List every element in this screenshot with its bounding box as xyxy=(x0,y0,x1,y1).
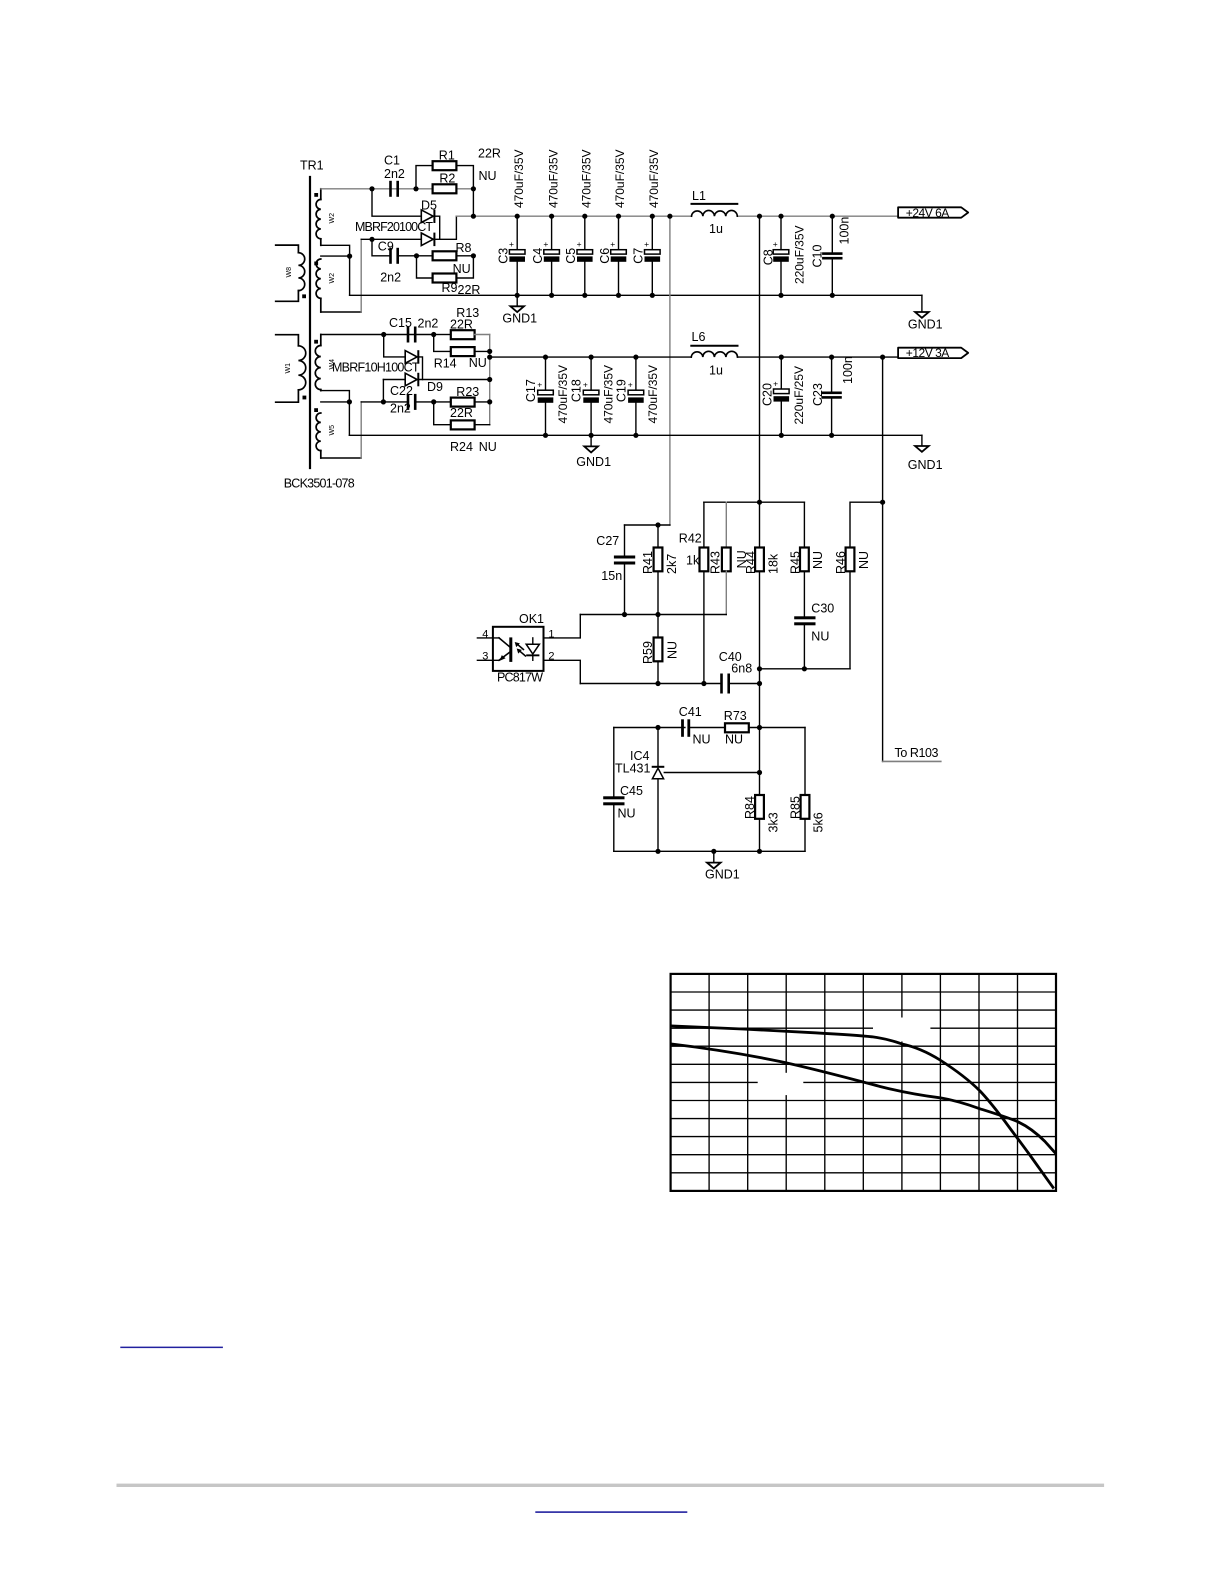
svg-text:NU: NU xyxy=(725,733,743,747)
node R14 right junction xyxy=(487,349,492,354)
wire TL431 bottom rail y851.3 xyxy=(614,850,805,852)
OK1 pin 4 wire xyxy=(477,637,499,639)
svg-text:470uF/35V: 470uF/35V xyxy=(646,365,660,424)
link underline bottom-center xyxy=(535,1511,687,1513)
capacitor C7 xyxy=(644,214,660,298)
capacitor C45 xyxy=(603,796,624,851)
link underline top-left xyxy=(120,1347,223,1349)
wire W2 bottom to center tap xyxy=(321,245,350,256)
svg-text:D9: D9 xyxy=(427,380,443,394)
svg-text:R24: R24 xyxy=(450,440,473,454)
capacitor C4 xyxy=(543,214,559,298)
ground GND1 right bottom xyxy=(908,446,943,472)
wire C9 to R8 xyxy=(399,255,433,257)
wire W4 bottom to center tap 2 xyxy=(321,391,350,402)
svg-text:2k7: 2k7 xyxy=(665,554,679,574)
secondary winding W5 xyxy=(316,413,321,458)
svg-text:+: + xyxy=(610,239,615,249)
wire C22 right xyxy=(417,401,451,403)
resistor R14 xyxy=(451,347,475,356)
wire W5 bottom xyxy=(321,457,361,459)
svg-text:R44: R44 xyxy=(744,551,758,574)
node C15 right junction xyxy=(431,332,436,337)
svg-text:W2: W2 xyxy=(329,273,336,284)
ground GND1 bottom xyxy=(705,851,740,881)
wire left column x613.8 xyxy=(613,728,615,797)
svg-text:C22: C22 xyxy=(390,384,413,398)
svg-text:R84: R84 xyxy=(743,796,757,819)
svg-text:+: + xyxy=(773,239,778,249)
wire C15 to R13 xyxy=(436,334,451,336)
svg-text:C23: C23 xyxy=(811,383,825,406)
graph border xyxy=(671,974,1056,1191)
node center tap junction xyxy=(347,254,352,259)
svg-text:C9: C9 xyxy=(378,240,394,254)
node TL431 anode bottom xyxy=(655,849,660,854)
OK1 pin 3 wire xyxy=(477,659,499,661)
node C9 right junction xyxy=(414,253,419,258)
wire W2b bottom to anode riser xyxy=(321,311,361,313)
capacitor C6 xyxy=(610,214,626,298)
svg-text:+: + xyxy=(628,380,633,390)
node To R103 tap xyxy=(880,355,885,360)
wire R73 right to column xyxy=(749,727,805,729)
inductor L6 xyxy=(691,346,737,357)
svg-text:+12V 3A: +12V 3A xyxy=(906,346,950,360)
capacitor C5 xyxy=(577,214,593,298)
wire right column x489.7 xyxy=(489,335,491,425)
svg-text:PC817W: PC817W xyxy=(497,671,543,685)
diode D5 top xyxy=(421,210,435,224)
resistor R45 xyxy=(800,502,809,616)
wire W2b top to center tap xyxy=(321,255,350,257)
capacitor C23 xyxy=(821,355,841,438)
W1 polarity dot xyxy=(303,396,307,400)
svg-text:GND1: GND1 xyxy=(502,312,537,326)
wire R1 loop xyxy=(416,166,433,189)
node W2 top junction xyxy=(369,186,374,191)
wire anode node drop to C9 line xyxy=(372,239,389,256)
resistor R84 xyxy=(755,795,764,851)
node TL431 ref xyxy=(757,770,762,775)
svg-text:+: + xyxy=(509,239,514,249)
svg-text:C5: C5 xyxy=(564,248,578,264)
svg-text:100n: 100n xyxy=(838,217,852,245)
wire GND1 rail drop to symbol xyxy=(921,295,923,312)
svg-text:NU: NU xyxy=(469,356,487,370)
capacitor C18 xyxy=(583,355,599,438)
svg-text:470uF/35V: 470uF/35V xyxy=(613,150,627,209)
node +24V sense taps xyxy=(667,214,672,219)
svg-text:3: 3 xyxy=(482,651,488,663)
wire D9 bottom cathode link to column xyxy=(419,379,489,381)
node R46 top to R103 line xyxy=(880,500,885,505)
svg-text:NU: NU xyxy=(857,551,871,569)
wire +24V rail after L1 xyxy=(737,215,897,217)
svg-text:+: + xyxy=(583,380,588,390)
resistor R44 xyxy=(755,502,764,683)
secondary winding W2 xyxy=(316,189,321,246)
OK1 light arrows xyxy=(515,642,526,656)
node anode C22 junction xyxy=(381,399,386,404)
svg-text:TL431: TL431 xyxy=(615,762,650,776)
capacitor C27 xyxy=(614,525,635,615)
OK1 phototransistor xyxy=(499,637,512,662)
node bottom anode junction xyxy=(369,237,374,242)
wire +12V rail xyxy=(490,356,692,358)
wire center tap down to GND rail xyxy=(349,256,351,295)
wire D5 bottom cathode to rail xyxy=(435,216,456,239)
wire GND1 rail xyxy=(350,294,922,296)
wire divider top line y502 xyxy=(704,501,805,503)
resistor R13 xyxy=(451,330,475,339)
svg-text:R45: R45 xyxy=(789,551,803,574)
svg-text:MBRF20100CT: MBRF20100CT xyxy=(355,220,433,234)
node GND stub bottom xyxy=(711,849,716,854)
svg-text:3k3: 3k3 xyxy=(766,812,780,832)
wire C41 R73 line y727.5 xyxy=(614,727,685,729)
svg-text:C17: C17 xyxy=(524,379,538,402)
wire R23 right xyxy=(475,401,490,403)
wire divider drop x759.5 upper xyxy=(759,216,761,502)
inductor L1 xyxy=(692,204,738,216)
svg-text:L1: L1 xyxy=(692,189,706,203)
diode D9 top xyxy=(405,350,419,364)
node R23 right junction xyxy=(487,399,492,404)
diode D5 bottom xyxy=(421,233,435,247)
W2b polarity dot xyxy=(314,262,318,266)
svg-text:C30: C30 xyxy=(811,602,834,616)
svg-text:22R: 22R xyxy=(478,147,501,161)
svg-text:220uF/35V: 220uF/35V xyxy=(793,226,807,285)
W8 polarity dot xyxy=(302,294,306,298)
primary winding W8 xyxy=(276,245,305,301)
wire D9 bottom anode xyxy=(383,379,405,381)
resistor R46 xyxy=(846,502,883,669)
graph erased label patch 1 xyxy=(873,1018,930,1042)
wire R13 right xyxy=(475,334,490,336)
wire bottom anode line xyxy=(361,238,421,240)
svg-text:W2: W2 xyxy=(329,213,336,224)
svg-text:470uF/35V: 470uF/35V xyxy=(546,150,560,209)
svg-text:2n2: 2n2 xyxy=(418,316,439,330)
node R41 bottom R59 top xyxy=(655,612,660,617)
wire x759.5 lower xyxy=(759,684,761,796)
wire W5 bottom riser x361 xyxy=(360,402,362,458)
node R73 right xyxy=(757,725,762,730)
W2 polarity dot xyxy=(314,193,318,197)
secondary winding W4 xyxy=(315,335,321,391)
GRAPH xyxy=(671,974,1056,1191)
svg-text:C3: C3 xyxy=(497,248,511,264)
svg-text:+: + xyxy=(537,380,542,390)
OK1 LED xyxy=(526,638,539,660)
svg-text:R23: R23 xyxy=(456,385,479,399)
node R59 bottom xyxy=(655,681,660,686)
svg-text:1k: 1k xyxy=(686,554,700,568)
svg-text:GND1: GND1 xyxy=(705,868,740,882)
capacitor C10 xyxy=(822,214,842,298)
svg-text:BCK3501-078: BCK3501-078 xyxy=(284,477,355,491)
svg-text:GND1: GND1 xyxy=(908,318,943,332)
svg-text:R42: R42 xyxy=(679,532,702,546)
capacitor C8 xyxy=(773,214,789,298)
svg-text:100n: 100n xyxy=(841,356,855,384)
svg-text:C10: C10 xyxy=(811,245,825,268)
svg-text:470uF/35V: 470uF/35V xyxy=(580,150,594,209)
wire R24 right leg xyxy=(475,424,490,426)
svg-text:C41: C41 xyxy=(679,705,702,719)
resistor R42 xyxy=(700,502,709,683)
svg-text:2: 2 xyxy=(548,651,554,663)
resistor R85 xyxy=(801,728,810,852)
svg-text:C18: C18 xyxy=(570,379,584,402)
node divider tap x759.5 xyxy=(757,214,762,219)
wire C27 top stub y525 xyxy=(625,524,670,526)
wire C30 R46 bottom line y668.8 xyxy=(760,668,851,670)
resistor R8 xyxy=(433,251,457,260)
svg-text:D5: D5 xyxy=(421,199,437,213)
graph erased label patch 2 xyxy=(758,1073,804,1095)
wire To R103 stub xyxy=(883,760,941,762)
wire node drop to D9 top anode xyxy=(384,335,406,357)
capacitor C9 xyxy=(389,248,399,264)
FOOTER xyxy=(117,1347,1105,1513)
svg-text:C1: C1 xyxy=(384,154,400,168)
node cathode link junction xyxy=(487,377,492,382)
svg-text:NU: NU xyxy=(618,807,636,821)
node C30 bottom xyxy=(802,666,807,671)
svg-text:R41: R41 xyxy=(641,551,655,574)
wire R9 left leg xyxy=(417,256,433,278)
W4 polarity dot xyxy=(314,340,318,344)
svg-text:R46: R46 xyxy=(834,551,848,574)
wire C22 line xyxy=(361,401,407,403)
svg-text:MBRF10H100CT: MBRF10H100CT xyxy=(332,361,420,375)
svg-text:W8: W8 xyxy=(286,267,293,278)
svg-text:1: 1 xyxy=(548,628,554,640)
svg-text:R1: R1 xyxy=(439,149,455,163)
wire R9 right leg xyxy=(456,256,473,278)
svg-text:1u: 1u xyxy=(709,364,723,378)
wire D9 top cathode link xyxy=(419,357,422,380)
svg-text:R73: R73 xyxy=(724,709,747,723)
graph grid horizontals xyxy=(671,992,1056,1173)
svg-text:5k6: 5k6 xyxy=(812,812,826,832)
svg-text:W1: W1 xyxy=(285,363,292,374)
svg-text:2n2: 2n2 xyxy=(380,271,401,285)
svg-text:18k: 18k xyxy=(767,553,781,574)
resistor R43 xyxy=(722,502,731,614)
SCHEMATIC xyxy=(276,147,922,491)
node C27 bottom xyxy=(622,612,627,617)
node center tap 2 junction xyxy=(347,399,352,404)
capacitor C15 xyxy=(407,327,417,343)
svg-text:+: + xyxy=(644,239,649,249)
OK1 pin 2 wire xyxy=(544,660,581,683)
wire anode riser x361 xyxy=(360,239,362,312)
graph curve B xyxy=(671,1044,1056,1154)
wire node down to rail xyxy=(472,189,474,216)
OK1 pin 1 wire xyxy=(544,615,581,638)
node R84 bottom xyxy=(757,849,762,854)
svg-text:470uF/35V: 470uF/35V xyxy=(512,150,526,209)
svg-text:R8: R8 xyxy=(456,241,472,255)
svg-text:+: + xyxy=(577,239,582,249)
svg-text:220uF/25V: 220uF/25V xyxy=(792,366,806,425)
svg-text:2n2: 2n2 xyxy=(384,167,405,181)
node +24V rail junction at x473 xyxy=(471,214,476,219)
wire mid line y614.5 xyxy=(580,614,726,616)
svg-text:NU: NU xyxy=(479,169,497,183)
svg-text:6n8: 6n8 xyxy=(731,662,752,676)
svg-text:+24V 6A: +24V 6A xyxy=(906,206,950,220)
wire D5 top cathode link xyxy=(435,216,439,239)
resistor R73 xyxy=(725,723,749,732)
node x759.5 top xyxy=(757,500,762,505)
svg-text:4: 4 xyxy=(482,628,488,640)
node C1 right junction xyxy=(413,186,418,191)
wire R14 left leg xyxy=(434,335,451,352)
capacitor C1 xyxy=(389,181,399,197)
svg-text:R59: R59 xyxy=(641,641,655,664)
wire W4 top xyxy=(321,334,433,336)
svg-text:15n: 15n xyxy=(601,569,622,583)
node C40 right xyxy=(757,681,762,686)
W5 polarity dot xyxy=(314,408,318,412)
svg-text:470uF/35V: 470uF/35V xyxy=(601,365,615,424)
node R8 right junction xyxy=(471,253,476,258)
graph grid verticals xyxy=(709,974,1017,1191)
wire 24V feedback drop x670 xyxy=(669,216,671,525)
wire GND2 rail drop to symbol xyxy=(921,435,923,446)
svg-text:R2: R2 xyxy=(439,172,455,186)
svg-text:22R: 22R xyxy=(450,318,473,332)
svg-text:TR1: TR1 xyxy=(300,159,324,173)
svg-text:NU: NU xyxy=(479,440,497,454)
svg-text:NU: NU xyxy=(665,641,679,659)
wire W2 top to snubber node xyxy=(321,188,473,190)
wire R24 left leg xyxy=(434,402,451,425)
capacitor C30 xyxy=(794,616,815,669)
svg-text:1u: 1u xyxy=(709,222,723,236)
svg-text:C4: C4 xyxy=(531,248,545,264)
capacitor C19 xyxy=(628,355,644,438)
node C22 right junction xyxy=(431,399,436,404)
resistor R23 xyxy=(451,398,475,407)
resistor R24 xyxy=(451,420,475,429)
svg-text:470uF/35V: 470uF/35V xyxy=(556,365,570,424)
svg-text:GND1: GND1 xyxy=(908,458,943,472)
wire R14 right xyxy=(475,350,490,352)
svg-text:22R: 22R xyxy=(450,406,473,420)
node TL431 cathode top xyxy=(655,725,660,730)
capacitor C22 xyxy=(407,394,417,410)
optocoupler OK1 box xyxy=(493,627,544,671)
node R2 right junction xyxy=(471,186,476,191)
svg-text:C20: C20 xyxy=(760,383,774,406)
ground GND1 under C3 xyxy=(502,295,537,325)
node W4 top junction xyxy=(381,332,386,337)
graph curve A xyxy=(671,1026,1054,1189)
node x759.5 at y668.8 xyxy=(757,666,762,671)
capacitor C3 xyxy=(509,214,525,298)
node +12V rail start xyxy=(487,355,492,360)
resistor R59 xyxy=(654,615,663,684)
resistor R1 xyxy=(433,161,457,170)
resistor R41 xyxy=(654,525,663,615)
svg-text:L6: L6 xyxy=(692,330,706,344)
wire anode drop to C22 line xyxy=(382,380,384,402)
flag +12V 3A xyxy=(898,346,968,360)
resistor R2 xyxy=(433,184,457,193)
svg-text:470uF/35V: 470uF/35V xyxy=(647,150,661,209)
capacitor C20 xyxy=(773,355,789,438)
svg-text:R43: R43 xyxy=(709,551,723,574)
svg-text:W5: W5 xyxy=(329,425,336,436)
wire +24V rail xyxy=(456,215,691,217)
horizontal rule xyxy=(117,1484,1105,1487)
svg-text:To R103: To R103 xyxy=(895,746,939,760)
wire +12V rail after L6 xyxy=(738,356,898,358)
node R41 top xyxy=(655,522,660,527)
svg-text:C7: C7 xyxy=(632,248,646,264)
diode D9 bottom xyxy=(405,373,419,387)
svg-text:OK1: OK1 xyxy=(519,612,544,626)
wire W5 top to center tap 2 xyxy=(321,401,350,403)
secondary winding W2b xyxy=(316,259,321,312)
svg-text:C27: C27 xyxy=(596,534,619,548)
resistor R9 xyxy=(433,274,457,283)
svg-text:NU: NU xyxy=(811,630,829,644)
wire GND2 rail xyxy=(349,434,922,436)
svg-text:C15: C15 xyxy=(389,316,412,330)
svg-text:NU: NU xyxy=(693,733,711,747)
svg-text:GND1: GND1 xyxy=(576,455,611,469)
svg-text:2n2: 2n2 xyxy=(390,402,411,416)
capacitor C40 xyxy=(720,674,759,694)
ground GND1 under C18 xyxy=(576,435,611,469)
wire center tap 2 down to GND2 rail xyxy=(348,402,350,435)
svg-text:R9: R9 xyxy=(442,281,458,295)
node R42 bottom xyxy=(701,681,706,686)
capacitor C17 xyxy=(537,355,553,438)
wire R8 right xyxy=(456,255,473,257)
svg-text:C6: C6 xyxy=(598,248,612,264)
svg-text:C8: C8 xyxy=(761,249,775,265)
ground GND1 right top xyxy=(908,312,943,332)
svg-text:C45: C45 xyxy=(620,784,643,798)
capacitor C41 xyxy=(681,719,725,737)
wire node A drop to top diode anode xyxy=(372,189,421,216)
svg-text:+: + xyxy=(543,239,548,249)
primary winding W1 xyxy=(276,335,306,403)
flag +24V 6A xyxy=(898,206,968,220)
svg-text:C19: C19 xyxy=(614,379,628,402)
wire R1 right to node xyxy=(456,166,473,189)
svg-text:R85: R85 xyxy=(788,796,802,819)
wire To R103 vertical xyxy=(882,357,884,761)
svg-text:NU: NU xyxy=(811,551,825,569)
transformer TR1 core xyxy=(309,177,311,468)
svg-text:R14: R14 xyxy=(434,357,457,371)
IC4 TL431 xyxy=(652,728,760,852)
wire C40 line y683.5 xyxy=(580,683,720,685)
